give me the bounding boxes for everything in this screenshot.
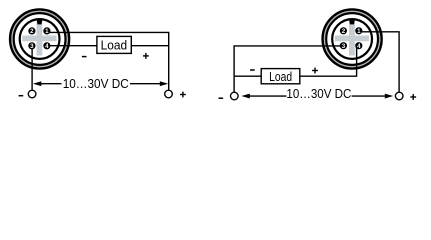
connector X2 insert face circle <box>332 19 372 59</box>
pin 3 (left connector) <box>28 42 35 50</box>
svg-text:3: 3 <box>342 43 346 50</box>
dimension line left segment (left diagram) <box>41 83 62 85</box>
connector X1 coupling ring circle <box>12 12 67 67</box>
connector X2 insert cross divider <box>335 21 369 55</box>
supply terminal plus node (left diagram) <box>165 90 173 98</box>
dimension line right segment (right diagram) <box>352 95 386 97</box>
dimension arrowhead left (right diagram) <box>241 94 249 99</box>
pin 4 (left connector) <box>43 42 50 50</box>
dimension line left segment (right diagram) <box>249 95 287 97</box>
wire Load box to left vertical (right diagram) <box>234 75 261 77</box>
dimension line right segment (left diagram) <box>130 83 161 85</box>
svg-text:3: 3 <box>30 43 34 50</box>
dimension arrowhead left (left diagram) <box>33 81 41 86</box>
wire pin3 down to minus terminal (left diagram) <box>31 46 33 90</box>
supply label plus (right diagram) <box>410 96 416 97</box>
svg-text:2: 2 <box>342 28 346 35</box>
connector X2 keyway notch <box>349 18 355 24</box>
supply label plus (left diagram) <box>180 94 186 95</box>
polarity label minus at Load (right diagram) <box>250 69 255 71</box>
connector X2 (M12 device plug, right diagram) <box>323 10 382 69</box>
wire pin1 to top-right corner (left diagram) <box>47 32 169 90</box>
pin 2 (right connector) <box>340 27 347 35</box>
svg-text:Load: Load <box>269 69 292 84</box>
connector X1 outer shell circle <box>10 10 69 69</box>
connector X1 coupling ring inner circle <box>14 13 66 65</box>
pin 3 (right connector) <box>340 42 347 50</box>
wire Load box to right vertical (left diagram) <box>131 45 169 47</box>
wire pin3 to left vertical (right diagram) <box>234 46 343 92</box>
supply terminal plus node (right diagram) <box>395 92 403 100</box>
connector X1 insert face circle <box>20 19 60 59</box>
wire pin1 to right vertical (right diagram) <box>359 32 399 92</box>
connector X2 coupling ring circle <box>325 12 380 67</box>
wire pin4 down to load wire (right diagram) <box>300 46 357 76</box>
connector X1 keyway notch <box>36 18 42 24</box>
supply terminal minus node (right diagram) <box>231 92 239 100</box>
pin 4 (right connector) <box>355 42 362 50</box>
svg-text:10…30V DC: 10…30V DC <box>286 86 351 101</box>
connector X2 outer shell circle <box>323 10 382 69</box>
pin 1 (right connector) <box>355 27 362 35</box>
svg-text:1: 1 <box>45 28 49 35</box>
svg-text:4: 4 <box>45 43 49 50</box>
wire pin4 to Load box (left diagram) <box>47 45 97 47</box>
connector X1 insert cross divider <box>22 21 56 55</box>
pin 2 (left connector) <box>28 27 35 35</box>
svg-text:4: 4 <box>357 43 361 50</box>
polarity label minus at Load (left diagram) <box>82 56 87 58</box>
supply label minus (right diagram) <box>219 97 224 99</box>
load box L1 (left diagram) <box>97 36 131 53</box>
dimension arrowhead right (right diagram) <box>385 94 393 99</box>
load box L2 (right diagram) <box>261 69 300 84</box>
svg-text:2: 2 <box>30 28 34 35</box>
connector X2 coupling ring inner circle <box>326 13 378 65</box>
svg-text:Load: Load <box>101 38 128 53</box>
dimension arrowhead right (left diagram) <box>160 81 168 86</box>
polarity label plus at Load (right diagram) <box>312 70 318 71</box>
supply terminal minus node (left diagram) <box>28 90 36 98</box>
pin 1 (left connector) <box>43 27 50 35</box>
polarity label plus at Load (left diagram) <box>143 55 149 56</box>
connector X1 (M12 device plug, left diagram) <box>10 10 69 69</box>
svg-text:10…30V DC: 10…30V DC <box>63 76 129 91</box>
supply label minus (left diagram) <box>19 95 24 97</box>
svg-text:1: 1 <box>357 28 361 35</box>
